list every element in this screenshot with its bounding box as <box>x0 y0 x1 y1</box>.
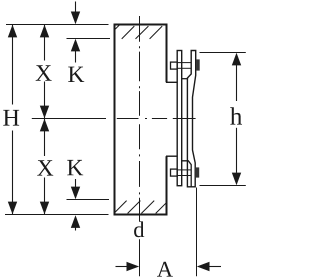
top reference line <box>6 24 109 26</box>
top nut <box>196 59 200 70</box>
dimension X top arrows <box>40 25 49 119</box>
label X bottom <box>37 160 53 175</box>
h top extension line <box>200 52 246 54</box>
bracket bar 2 <box>187 51 195 187</box>
horizontal centerline (dash-dot) <box>117 118 196 120</box>
top bolt shaft <box>177 63 191 69</box>
vertical centerline (dash-dot) <box>139 16 141 222</box>
dimension K top inner arrow <box>71 39 80 63</box>
plate outline <box>114 24 168 216</box>
label h <box>230 107 242 124</box>
bottom bolt head <box>171 169 178 176</box>
dimension H arrows <box>8 25 17 215</box>
A right extension line <box>196 188 198 277</box>
dimension K top outside arrow <box>71 2 80 25</box>
label d <box>134 221 144 237</box>
middle reference line <box>32 118 106 120</box>
A left arrow <box>116 262 140 271</box>
label K bottom <box>67 160 83 175</box>
dimension H line <box>12 25 14 215</box>
bracket bar 1 <box>177 51 182 186</box>
h bottom extension line <box>200 185 246 187</box>
plate top stub to bracket <box>166 81 178 83</box>
bracket clamp piece bottom <box>182 161 192 187</box>
plate bottom stub to bracket <box>166 155 178 157</box>
top K reference line <box>67 38 111 40</box>
bracket clamp piece top <box>182 78 189 80</box>
bottom nut <box>196 167 199 177</box>
hatching bottom band <box>114 201 167 214</box>
dimension X bottom arrows <box>40 119 49 215</box>
label K top <box>68 67 84 82</box>
A right arrow <box>197 262 221 271</box>
label X top <box>36 65 52 80</box>
dimension X bottom line <box>44 119 46 215</box>
dimension h arrows <box>232 53 241 186</box>
dimension h line <box>236 65 238 173</box>
hatching top band <box>114 25 162 39</box>
dimension K bottom inner arrow <box>71 179 80 199</box>
dimension K bottom outside arrow <box>71 215 80 230</box>
label A <box>157 262 173 277</box>
dimension X top line <box>44 25 46 119</box>
label H <box>3 110 19 126</box>
bottom bolt shaft <box>177 170 191 176</box>
bottom reference line <box>5 214 109 216</box>
bottom K reference line <box>67 199 110 201</box>
A left extension line <box>139 239 141 276</box>
top bolt head <box>171 62 178 69</box>
